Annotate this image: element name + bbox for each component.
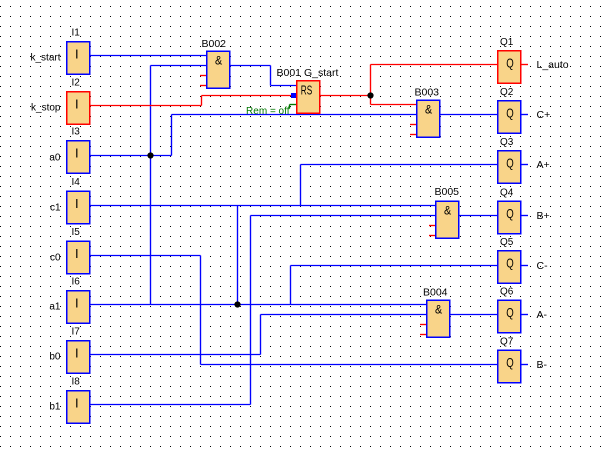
stub unused input 4 of B003: [410, 134, 416, 136]
output block Q7 (B-): [498, 337, 548, 383]
stub unused input 3 of B005: [429, 225, 435, 227]
svg-text:Q1: Q1: [500, 37, 514, 48]
svg-text:Q6: Q6: [500, 287, 514, 298]
svg-text:C-: C-: [537, 260, 549, 272]
output block Q6 (A-): [498, 287, 548, 333]
svg-text:Q4: Q4: [500, 188, 514, 199]
svg-text:B004: B004: [423, 287, 448, 299]
svg-text:I3: I3: [72, 127, 81, 138]
svg-text:Q7: Q7: [500, 337, 514, 348]
stub unused input 3 of B003: [410, 124, 416, 126]
input block I7 (b0): [49, 327, 89, 374]
wire c1 to B005 in1: [91, 205, 436, 207]
svg-text:Q: Q: [506, 56, 514, 71]
wire B003 out to Q2: [441, 114, 498, 116]
svg-text:&: &: [444, 204, 451, 218]
wire riser x290: [290, 266, 292, 305]
stub unused input 3 of B002: [200, 75, 206, 77]
input block I1 (k_start): [30, 28, 89, 75]
connector square at RS R input: [291, 93, 297, 98]
svg-text:I5: I5: [72, 227, 81, 238]
svg-text:C+: C+: [537, 109, 551, 121]
stub unused input 4 of B004: [420, 334, 426, 336]
wire Q2 output dash: [522, 114, 529, 116]
parameter stub Rem=off: [246, 105, 296, 118]
svg-text:k_start: k_start: [30, 53, 60, 64]
wire I1 to B002 in1: [91, 55, 207, 57]
wire riser x260: [260, 315, 262, 355]
svg-text:B-: B-: [537, 359, 548, 371]
wire connector x237: [237, 206, 239, 305]
svg-text:Q: Q: [506, 256, 514, 271]
svg-text:B003: B003: [415, 86, 440, 98]
svg-text:&: &: [435, 303, 442, 317]
stub unused input 4 of B005: [429, 235, 435, 237]
wire k_stop out: [91, 105, 202, 107]
AND gate B004: [423, 287, 450, 338]
AND gate B005: [435, 186, 460, 238]
stub unused input 3 of B004: [420, 324, 426, 326]
wire a1 to B004 in1: [91, 304, 427, 306]
wire Q1 output dash: [522, 64, 529, 66]
wire Q6 output dash: [522, 314, 529, 316]
wire B004 out to Q6: [451, 314, 498, 316]
svg-text:I: I: [75, 47, 79, 62]
svg-text:I6: I6: [72, 277, 81, 288]
svg-text:Rem = off: Rem = off: [246, 106, 290, 117]
svg-text:Q2: Q2: [500, 87, 514, 98]
wire b0 horizontal: [91, 354, 261, 356]
RS flip-flop B001 (G_start): [277, 67, 339, 113]
wire vertical x151: [150, 66, 152, 305]
svg-text:Q5: Q5: [500, 237, 514, 248]
svg-text:B002: B002: [202, 38, 227, 50]
svg-text:Q: Q: [506, 305, 514, 320]
svg-text:&: &: [215, 54, 222, 68]
wire b1 horizontal: [91, 404, 251, 406]
wire riser x300: [300, 165, 302, 206]
junction c1-a1 connector: [234, 301, 240, 307]
wire RS out: [321, 95, 371, 97]
svg-text:L_auto: L_auto: [537, 59, 569, 71]
wire a0 horizontal: [91, 155, 172, 157]
output block Q3 (A+): [498, 137, 550, 183]
stub unused input 4 of B002: [200, 85, 206, 87]
svg-text:I: I: [75, 97, 79, 112]
output block Q1 (L_auto): [498, 37, 569, 83]
svg-text:B005: B005: [435, 186, 460, 198]
svg-text:Q: Q: [506, 156, 514, 171]
svg-text:Q: Q: [506, 206, 514, 221]
input block I6 (a1): [49, 277, 89, 324]
input block I5 (c0): [50, 227, 90, 274]
output block Q5 (C-): [498, 237, 548, 283]
wire to Q3: [301, 164, 498, 166]
svg-text:I: I: [75, 246, 79, 261]
svg-text:&: &: [425, 103, 432, 117]
wire B002 out: [231, 65, 271, 67]
svg-text:I: I: [75, 296, 79, 311]
svg-text:Q: Q: [506, 106, 514, 121]
wire a0 to B003 in2: [172, 114, 417, 116]
input block I8 (b1): [49, 377, 89, 424]
AND gate B002: [202, 38, 230, 88]
svg-text:I2: I2: [72, 78, 81, 89]
wire B005 out to Q4: [460, 215, 498, 217]
svg-text:I4: I4: [72, 177, 81, 188]
wire to RS S input: [271, 85, 297, 87]
svg-text:Q3: Q3: [500, 137, 514, 148]
wire riser x171: [171, 115, 173, 156]
wire to Q1: [371, 64, 498, 66]
junction RS output branch: [367, 92, 373, 98]
wire riser to B002 in2: [151, 65, 207, 67]
output block Q2 (C+): [498, 87, 550, 133]
wire to Q5: [291, 265, 498, 267]
svg-text:I: I: [75, 396, 79, 411]
wire to RS R input: [202, 95, 292, 97]
wire to Q7: [201, 364, 498, 366]
wire Q7 output dash: [522, 364, 529, 366]
svg-text:B+: B+: [537, 210, 550, 222]
wire Q3 output dash: [522, 164, 529, 166]
svg-text:RS: RS: [301, 83, 313, 97]
wire k_stop step up: [201, 96, 203, 106]
svg-text:I8: I8: [72, 377, 81, 388]
svg-text:A+: A+: [537, 159, 550, 171]
input block I3 (a0): [49, 127, 89, 174]
wire to B005 in2: [251, 215, 436, 217]
svg-text:A-: A-: [537, 309, 548, 321]
svg-text:B001 G_start: B001 G_start: [277, 67, 339, 79]
output block Q4 (B+): [498, 188, 550, 234]
wire to B003 in1: [371, 104, 417, 106]
input block I4 (c1): [50, 177, 90, 224]
wire drop x200: [200, 256, 202, 365]
svg-text:I1: I1: [72, 28, 81, 39]
svg-text:a1: a1: [49, 302, 61, 313]
svg-text:I: I: [75, 346, 79, 361]
wire Q4 output dash: [522, 215, 529, 217]
svg-text:Q: Q: [506, 355, 514, 370]
svg-text:c1: c1: [50, 203, 61, 214]
svg-text:c0: c0: [50, 253, 61, 264]
svg-text:b1: b1: [49, 402, 61, 413]
svg-text:I7: I7: [72, 327, 81, 338]
svg-text:b0: b0: [49, 352, 61, 363]
input block I2 (k_stop): [31, 78, 90, 125]
wire riser x250: [250, 216, 252, 405]
junction a0/riser: [147, 152, 153, 158]
AND gate B003: [415, 86, 440, 137]
svg-text:k_stop: k_stop: [31, 103, 61, 114]
wire Q5 output dash: [522, 265, 529, 267]
svg-text:I: I: [75, 146, 79, 161]
wire branch vertical x370: [370, 65, 372, 105]
wire drop x270: [270, 66, 272, 86]
svg-text:a0: a0: [49, 153, 61, 164]
wire to B004 in2: [261, 314, 427, 316]
wire c0 horizontal: [91, 255, 201, 257]
svg-text:I: I: [75, 196, 79, 211]
